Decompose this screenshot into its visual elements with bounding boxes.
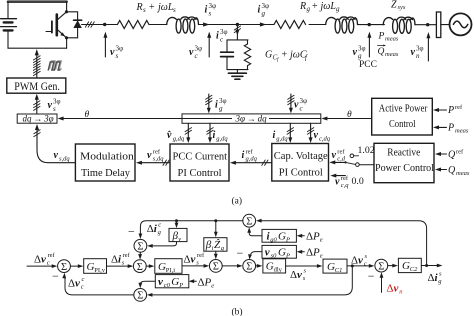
drop rail to beta_i Z_g: [214, 221, 218, 238]
i_g0GP output to S6: [247, 227, 262, 236]
svg-text:i3φc: i3φc: [216, 28, 228, 44]
wire GC1 to S7 with node: [347, 264, 374, 268]
node D dot: [426, 23, 429, 26]
arrow PWM Gen to converter with hatching: [33, 49, 40, 78]
svg-text:PI Control: PI Control: [178, 168, 222, 179]
block beta_v: [169, 228, 187, 241]
bottom rail from node dv_c s to S5: [147, 266, 352, 297]
svg-text:vrefs,dq: vrefs,dq: [147, 149, 164, 163]
svg-text:(a): (a): [232, 196, 243, 207]
summer S6: [243, 214, 256, 227]
wire Ls to node B: [199, 24, 238, 26]
rail S6 to S3 (curved down): [139, 219, 243, 239]
arrow dP_e into v_s0GP: [297, 250, 305, 254]
summer S1: [58, 260, 71, 273]
block i_g0 G_P: [262, 229, 296, 242]
input wire dv_c ref: [27, 264, 57, 268]
inductor Lg: [326, 17, 358, 33]
resistor Rg: [274, 21, 306, 29]
filter shunt: top rail: [227, 39, 248, 41]
arrow i_s on wire: [203, 22, 209, 26]
wire S3 to S2: [138, 252, 142, 259]
node A dot: [103, 23, 106, 26]
svg-text:Control: Control: [389, 119, 416, 130]
dq output drop 4 (v_c,dq): [307, 123, 313, 143]
svg-text:Δigc: Δigc: [147, 221, 162, 236]
measurement drop i_g 3ph into long box: [206, 94, 212, 113]
resistor G_Cf (vertical): [244, 40, 250, 70]
summer S2: [133, 260, 146, 273]
svg-text:−: −: [52, 269, 59, 283]
summer S7: [375, 259, 388, 272]
svg-text:vrefc,q: vrefc,q: [335, 175, 349, 189]
svg-text:vrefc,d: vrefc,d: [332, 149, 346, 163]
wire Gdly to GC1: [286, 264, 323, 268]
inductor Z_sys: [383, 17, 415, 33]
dc-link bottom wire: [8, 47, 67, 49]
theta wire left segment: [58, 117, 182, 121]
wire Modulation to dq box (curved) with slashes: [34, 124, 76, 163]
svg-text:PWM Gen.: PWM Gen.: [14, 81, 60, 93]
svg-text:Reactive: Reactive: [387, 148, 421, 159]
svg-text:dq → 3φ: dq → 3φ: [23, 114, 54, 124]
theta wire right segment: [321, 117, 371, 121]
dc-link right wire: [66, 2, 68, 49]
summer S3: [134, 239, 147, 252]
block G_PI,i: [155, 259, 182, 274]
PCC Current PI Control box: [170, 144, 229, 181]
node collector dot: [65, 10, 68, 13]
svg-text:1.02: 1.02: [358, 145, 375, 156]
svg-text:Δisref: Δisref: [111, 252, 131, 267]
svg-text:Power Control: Power Control: [375, 163, 434, 174]
PART-B-BLOCK-DIAGRAM: [27, 214, 442, 301]
svg-text:Pref: Pref: [447, 104, 463, 116]
svg-text:Qmeas: Qmeas: [378, 47, 399, 58]
wire bar to source: [441, 24, 450, 26]
wire Rg to Lg: [309, 24, 326, 26]
svg-text:Δvn: Δvn: [387, 283, 403, 296]
battery V_dc: [1, 19, 17, 31]
filter shunt: bottom rail: [227, 69, 248, 71]
svg-text:vs,dq: vs,dq: [54, 150, 71, 163]
wire Zsys to node D: [415, 24, 436, 26]
svg-text:(b): (b): [232, 307, 243, 316]
svg-text:Σ: Σ: [137, 291, 143, 302]
arrow v_s measurement: [103, 32, 107, 57]
arrow dq box to PWM Gen with slashes: [34, 94, 40, 114]
v_c0GP output to S5: [138, 281, 155, 288]
arrow v_n measurement: [426, 32, 430, 61]
feedback wire output to top rail: [256, 219, 427, 266]
svg-text:3φ → dq: 3φ → dq: [235, 114, 268, 124]
svg-text:−: −: [368, 269, 375, 283]
node emitter dot: [65, 36, 68, 39]
output wire di_g s: [421, 264, 442, 268]
dc-link left wire: [7, 2, 9, 49]
summer S5: [134, 289, 147, 302]
svg-text:ig,dq: ig,dq: [213, 130, 229, 143]
PART-A-CONTROL: [7, 49, 447, 183]
svg-text:Modulation: Modulation: [80, 152, 135, 163]
wire to Rs: [105, 24, 118, 26]
svg-text:Σ: Σ: [213, 262, 219, 273]
dq output drop 3 (i_g,dq): [287, 123, 293, 143]
svg-text:v3φc: v3φc: [189, 45, 202, 61]
svg-text:ΔPe: ΔPe: [198, 276, 215, 289]
wire diode branch: [67, 12, 78, 38]
block G_dly: [263, 259, 286, 273]
switch throw contact 1.02: [350, 154, 359, 158]
block G_C2: [398, 258, 421, 272]
svg-text:ΔPe: ΔPe: [306, 247, 323, 260]
switch common contact from Reactive control: [356, 163, 374, 167]
wire GPIi to S4: [182, 264, 209, 268]
svg-text:Δvcs: Δvcs: [351, 253, 368, 268]
beta_v output to S3: [147, 242, 176, 248]
wire Rs to Ls: [149, 24, 167, 26]
wire GPIv to S2: [107, 264, 134, 268]
arrow Cap to PCC with slashes: [230, 160, 272, 165]
PWM waveform glyph: [48, 62, 62, 70]
resistor Rs: [117, 21, 149, 29]
svg-text:ig,dq: ig,dq: [273, 130, 289, 143]
arrow dP_e into v_c0GP: [189, 279, 197, 283]
wire S4b to Gdly: [256, 264, 263, 268]
wire S7 to GC2: [388, 264, 398, 268]
beta_i Z_g output to S4: [214, 251, 218, 259]
svg-text:Rg+jωLg: Rg+jωLg: [299, 1, 340, 13]
theta wire inside long box: [182, 118, 321, 120]
svg-text:PCC: PCC: [359, 60, 377, 70]
arrow P meas: [433, 125, 447, 129]
svg-text:v3φc: v3φc: [294, 97, 307, 113]
block v_s0 G_P: [262, 245, 296, 258]
ground: [228, 70, 246, 80]
svg-text:PI Control: PI Control: [279, 168, 323, 179]
svg-text:GCf+jωCf: GCf+jωCf: [265, 50, 308, 64]
stub into Cap box (v_cq ref): [330, 174, 345, 178]
svg-text:0.0: 0.0: [352, 176, 364, 187]
block G_PI,v: [84, 259, 107, 274]
svg-text:i3φg: i3φg: [215, 97, 227, 113]
svg-text:Δvsref: Δvsref: [184, 252, 206, 267]
svg-text:v3φs: v3φs: [110, 45, 123, 61]
arrow v_g measurement: [367, 32, 371, 57]
svg-text:PCC Current: PCC Current: [173, 152, 228, 163]
grid voltage source: [450, 13, 472, 35]
svg-text:Σ: Σ: [137, 262, 143, 273]
3-phase slash marks: [85, 22, 94, 27]
PWM waveform glyph (gray shadow): [50, 61, 64, 69]
diode D1: [74, 20, 82, 28]
svg-text:Σ: Σ: [246, 262, 252, 273]
svg-text:Δvss: Δvss: [290, 267, 307, 282]
summer S4b: [243, 260, 256, 273]
LABELS-A-TOP: [110, 0, 424, 70]
Reactive Power Control box: [374, 143, 434, 182]
svg-text:v̂g,dq: v̂g,dq: [167, 130, 185, 143]
dq to 3ph box: [17, 114, 57, 123]
svg-text:−: −: [128, 224, 135, 238]
block beta_i Z_g: [204, 238, 227, 252]
svg-text:Cap. Voltage: Cap. Voltage: [274, 151, 328, 162]
dc-link top wire: [8, 0, 67, 3]
svg-text:v3φs: v3φs: [48, 98, 61, 114]
arrow i_g on wire: [260, 22, 266, 26]
infinite bus bar: [436, 12, 440, 38]
svg-text:irefg,dq: irefg,dq: [242, 149, 258, 163]
arrow Q ref: [435, 152, 447, 156]
svg-text:i3φg: i3φg: [258, 2, 270, 18]
svg-text:ΔPe: ΔPe: [306, 231, 323, 244]
3ph to dq long box: [182, 114, 321, 123]
wire S4 to S4b: [222, 264, 242, 268]
text 3ph->dq (white backed): [232, 114, 269, 124]
svg-text:i3φs: i3φs: [205, 2, 217, 18]
arrow Q meas: [435, 168, 447, 172]
wire node B to Rg: [237, 24, 274, 26]
S5 output to S1 (curved): [62, 273, 134, 295]
transistor Q1 (IGBT): [46, 12, 67, 38]
svg-text:v3φn: v3φn: [411, 45, 424, 61]
svg-text:θ: θ: [85, 110, 90, 120]
summer S4: [209, 260, 222, 273]
switch: stub into Cap box (v_cd ref): [329, 160, 355, 164]
arrow PCC to Modulation with slashes: [136, 160, 170, 165]
svg-text:Δigs: Δigs: [428, 271, 443, 286]
svg-text:Active Power: Active Power: [379, 103, 428, 114]
svg-text:θ: θ: [347, 110, 352, 120]
svg-text:Zsys: Zsys: [391, 0, 406, 11]
svg-text:v3φg: v3φg: [353, 45, 366, 61]
arrow v_c measurement: [207, 32, 211, 57]
measurement drop v_c 3ph into long box: [288, 94, 294, 113]
capacitor Cf: [221, 40, 234, 70]
drop rail to beta_v: [175, 221, 179, 228]
inductor Ls: [167, 17, 199, 33]
svg-text:vc,dq: vc,dq: [314, 130, 331, 143]
svg-text:Qref: Qref: [448, 149, 464, 161]
wire S2 to GPIi: [146, 264, 154, 268]
Modulation Time Delay box: [75, 144, 135, 181]
block v_c0 G_P: [155, 275, 189, 288]
svg-text:Rs+jωLs: Rs+jωLs: [136, 2, 177, 14]
red disturbance stub dv_n into S7: [380, 272, 384, 292]
block G_C1: [323, 259, 347, 273]
LABELS-B: [34, 217, 442, 316]
v_s0GP output to S4b: [248, 252, 262, 260]
PWM Gen box: [7, 78, 66, 93]
node B dot: [236, 23, 239, 26]
label Q_meas with vector arrow: [378, 45, 399, 59]
arrow P ref: [433, 108, 447, 112]
Cap Voltage PI Control box: [272, 144, 329, 182]
arrow dP_e into i_g0GP: [297, 234, 305, 238]
svg-text:Δvcc: Δvcc: [68, 276, 85, 291]
svg-text:Time Delay: Time Delay: [81, 168, 131, 179]
wire S1 to GPIv: [70, 264, 83, 268]
shunt branch wire with i_c arrow: [234, 25, 240, 40]
svg-text:Σ: Σ: [137, 242, 143, 253]
Active Power Control box: [372, 98, 433, 135]
LABELS-A-CONTROL: [14, 81, 470, 207]
wire converter output: [82, 24, 105, 26]
svg-text:Σ: Σ: [378, 261, 384, 272]
svg-text:Qmeas: Qmeas: [448, 165, 470, 177]
dq output drop 1 (v_g,dq): [185, 123, 191, 143]
dq output drop 2 (i_g,dq): [207, 123, 213, 143]
wire Lg to node C: [358, 24, 385, 26]
svg-text:−: −: [237, 246, 244, 260]
svg-text:Pmeas: Pmeas: [447, 123, 469, 135]
node C dot (PCC): [368, 23, 371, 26]
svg-text:Σ: Σ: [61, 262, 67, 273]
svg-text:Σ: Σ: [246, 217, 252, 228]
